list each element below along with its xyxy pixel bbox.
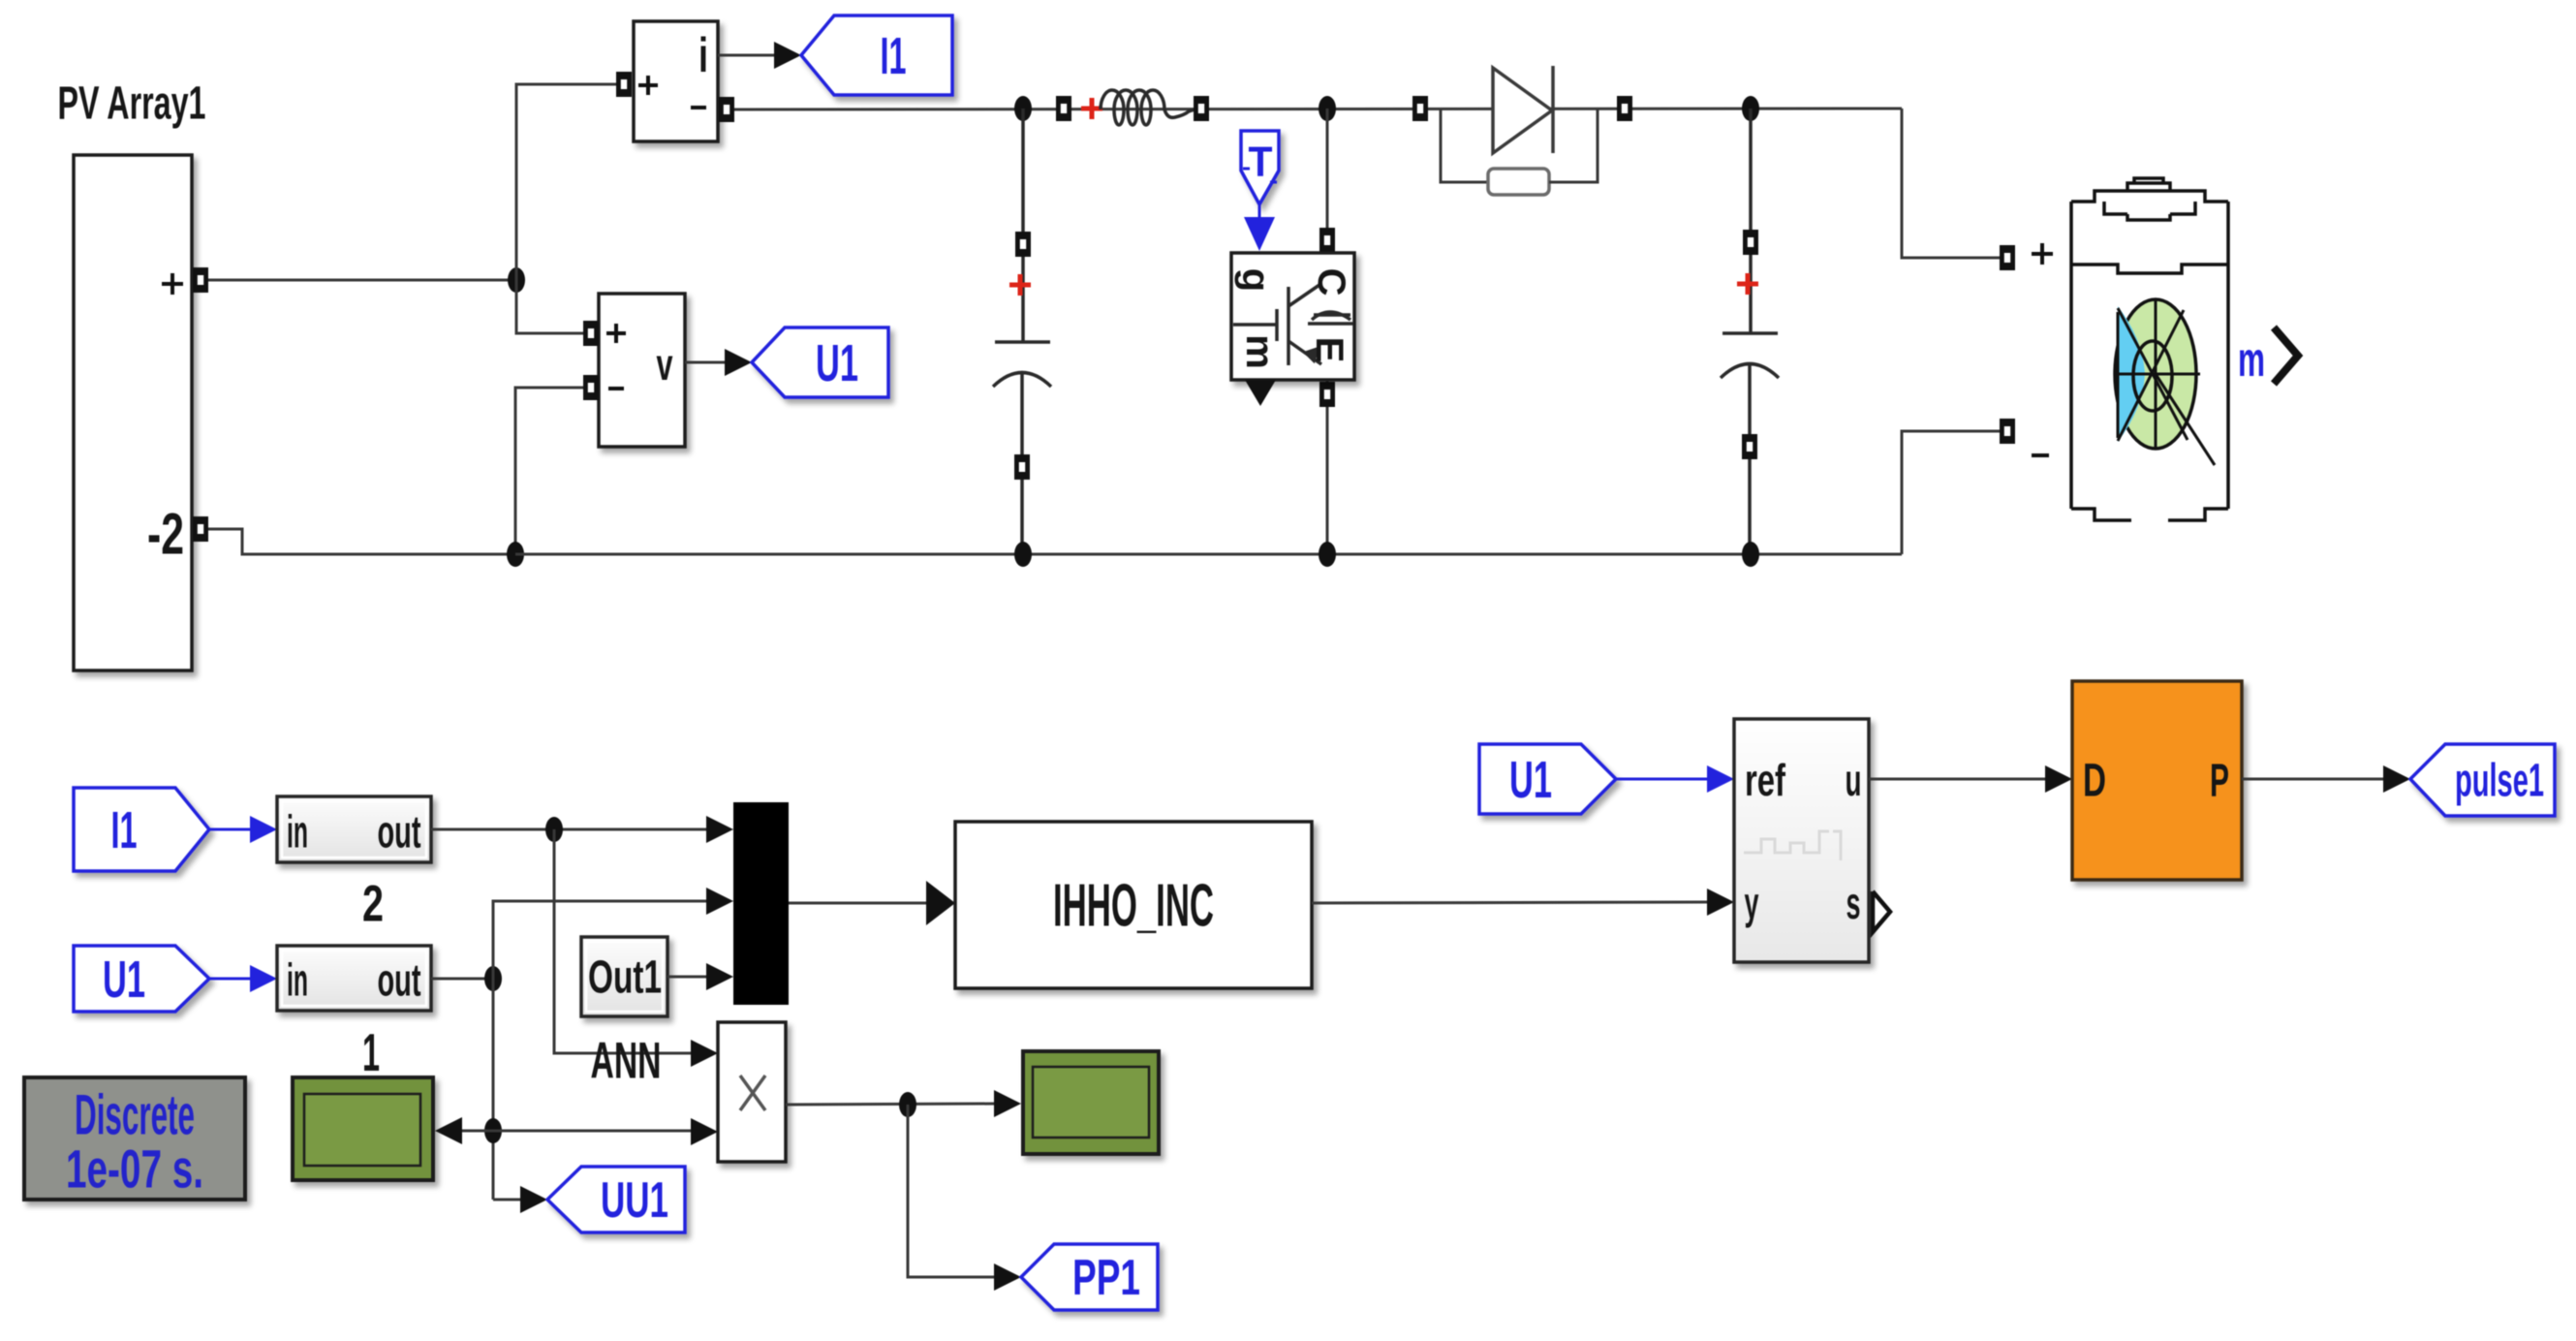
svg-text:Out1: Out1 (588, 952, 662, 1004)
inductor L left port marker (1056, 96, 1071, 121)
diode D right port marker (1617, 96, 1632, 121)
wire top rail to battery + (1902, 109, 2000, 258)
diode D (1493, 66, 1553, 153)
svg-text:U1: U1 (816, 334, 858, 392)
inductor polarity + (1081, 98, 1102, 119)
diode D left port marker (1412, 96, 1428, 121)
blue arrowhead into RT2 (250, 816, 277, 843)
svg-text:ANN: ANN (591, 1033, 662, 1090)
Discrete powergui block (24, 1077, 245, 1200)
svg-text:PP1: PP1 (1072, 1250, 1140, 1306)
svg-text:E: E (1308, 337, 1350, 363)
inductor L coil (1101, 90, 1195, 125)
current measurement block (634, 21, 718, 141)
capacitor C2 (1721, 109, 1779, 554)
wire u out to PWM (1869, 778, 2047, 781)
s output chevron (1873, 891, 1890, 932)
svg-text:v: v (657, 339, 673, 390)
battery + port marker (2000, 245, 2015, 270)
goto tag UU1 (547, 1167, 685, 1232)
node A junction (508, 267, 525, 293)
wire U1 to ref (1616, 778, 1709, 781)
svg-text:U1: U1 (1509, 751, 1552, 809)
diode snubber wire right (1549, 109, 1598, 182)
PV + port marker (193, 267, 208, 293)
IGBT top port marker (1319, 228, 1335, 253)
wire i output (718, 54, 776, 57)
arrowhead into PP1 (994, 1263, 1021, 1291)
svg-text:pulse1: pulse1 (2455, 756, 2544, 807)
IHHO_INC block (955, 822, 1312, 988)
wire U1 node down (492, 979, 495, 1200)
node C1 bottom junction (1014, 542, 1032, 567)
arrowhead mux input 2 (706, 888, 733, 915)
arrowhead into UU1 (520, 1186, 547, 1213)
top rail wire (734, 109, 1902, 109)
battery block (2071, 178, 2228, 520)
svg-text:1e-07 s.: 1e-07 s. (66, 1138, 203, 1200)
goto tag PP1 (1021, 1244, 1158, 1310)
svg-text:UU1: UU1 (601, 1172, 668, 1229)
goto tag I1 (801, 16, 952, 95)
arrowhead into I1 goto (774, 42, 801, 69)
node B junction (507, 542, 524, 567)
node U1 lower junction (484, 1118, 502, 1143)
svg-text:D: D (2083, 756, 2106, 807)
arrowhead into display 1 (435, 1117, 462, 1144)
wire P out to pulse1 (2242, 778, 2385, 781)
product block X (718, 1022, 786, 1162)
display block 2 (1023, 1051, 1159, 1154)
node I1 junction (545, 817, 563, 842)
svg-text:IHHO_INC: IHHO_INC (1053, 873, 1214, 940)
arrowhead into pulse1 (2383, 765, 2410, 793)
IGBT branch wire top (1326, 109, 1329, 253)
wire node A to current meter + (516, 84, 616, 280)
node IGBT top junction (1319, 96, 1336, 121)
current meter - port marker (719, 97, 734, 122)
wire RT1 out (431, 978, 493, 981)
current meter + port marker (616, 72, 632, 97)
wire mux out to IHHO_INC (789, 902, 928, 905)
arrowhead mux input 3 (706, 963, 733, 990)
wire product out (786, 1104, 997, 1105)
IGBT unconnected m arrow (1245, 380, 1276, 406)
arrowhead product input 2 (691, 1118, 718, 1145)
svg-text:-2: -2 (147, 502, 184, 567)
battery + label (2032, 243, 2053, 265)
battery - port marker (2000, 419, 2015, 444)
svg-text:out: out (378, 806, 421, 858)
svg-text:s: s (1847, 878, 1861, 928)
inductor L right port marker (1194, 96, 1209, 121)
svg-text:u: u (1846, 755, 1862, 805)
diode snubber wire left (1441, 109, 1488, 182)
svg-text:C: C (1310, 268, 1352, 296)
battery m chevron (2274, 327, 2298, 384)
snubber resistor (1488, 169, 1549, 195)
Out1 block (581, 937, 667, 1016)
C1 top port marker (1015, 232, 1031, 257)
wire Out1 to mux input 3 (667, 976, 708, 979)
svg-text:m: m (2238, 332, 2265, 387)
svg-text:I1: I1 (111, 801, 138, 859)
svg-text:ref: ref (1745, 755, 1785, 805)
svg-text:out: out (378, 954, 421, 1006)
wire node P to PP1 (908, 1105, 997, 1277)
From tag I1 (74, 788, 209, 871)
C1 bottom port marker (1014, 454, 1030, 480)
From tag U1 (74, 946, 209, 1012)
wire V- to bottom rail (515, 388, 583, 554)
arrowhead mux input 1 (706, 816, 733, 843)
svg-text:2: 2 (362, 876, 384, 933)
wire U1 node to mux input 2 (493, 901, 708, 979)
svg-text:P: P (2210, 756, 2229, 807)
node C1 top junction (1014, 96, 1032, 121)
svg-text:i: i (698, 28, 708, 82)
wire IHHO out to controller y input (1312, 902, 1709, 903)
PI controller block ref/u y/s (1734, 719, 1869, 962)
battery - label (2032, 453, 2049, 457)
arrowhead PWM input (2045, 765, 2072, 793)
From tag U1 right (1479, 744, 1616, 814)
node C2 bottom junction (1742, 542, 1759, 567)
rate transition block 2 (277, 796, 431, 862)
battery wheel icon (2115, 299, 2215, 465)
arrowhead IHHO input (926, 881, 955, 925)
arrowhead into U1 goto (725, 349, 752, 376)
wire PV+ to node A (208, 279, 516, 282)
wire node A to voltage meter + (516, 280, 583, 333)
arrowhead into display 2 (994, 1090, 1021, 1117)
svg-text:U1: U1 (103, 951, 145, 1009)
wire U1 from tag (209, 978, 252, 981)
wire T to gate (1258, 204, 1261, 218)
svg-text:y: y (1745, 878, 1759, 928)
svg-text:g: g (1234, 268, 1277, 292)
wire RT2 out to mux (431, 828, 708, 831)
wire v output (685, 361, 725, 364)
C1 polarity + (1009, 274, 1031, 296)
IGBT branch wire bottom (1326, 380, 1329, 554)
goto tag pulse1 (2410, 744, 2555, 816)
svg-text:1: 1 (362, 1022, 380, 1082)
node P junction (899, 1092, 916, 1117)
wire I1 node down to multiplier (554, 829, 694, 1053)
PV array block (74, 155, 192, 670)
C2 polarity + (1737, 273, 1758, 295)
capacitor C1 (993, 109, 1051, 554)
voltage measurement block (599, 294, 685, 447)
arrowhead y input (1707, 889, 1734, 916)
C2 bottom port marker (1742, 434, 1757, 459)
IGBT bottom port marker (1319, 382, 1335, 407)
IGBT block (1231, 253, 1354, 380)
wire node to display1 and product (462, 1130, 694, 1133)
node C2 top junction (1742, 96, 1759, 121)
V - port marker (583, 375, 599, 400)
goto tag U1 (752, 327, 888, 397)
wire bottom rail to battery - (1902, 431, 2000, 554)
blue arrowhead into RT1 (250, 965, 277, 992)
node U1 junction (484, 966, 502, 991)
arrowhead product input 1 (691, 1040, 718, 1067)
blue arrowhead into gate (1244, 217, 1275, 251)
wire U1 node to UU1 (493, 1199, 522, 1201)
C2 top port marker (1743, 230, 1758, 255)
mux block (733, 802, 789, 1005)
svg-text:in: in (287, 806, 308, 858)
rate transition block 1 (277, 946, 431, 1011)
svg-text:T: T (1249, 139, 1273, 186)
PV - port marker (193, 516, 208, 542)
PWM generator block (2072, 681, 2242, 880)
svg-text:m: m (1238, 334, 1281, 369)
svg-text:PV Array1: PV Array1 (58, 78, 206, 130)
svg-text:I1: I1 (881, 27, 907, 85)
display block 1 (293, 1077, 433, 1180)
blue arrowhead ref input (1707, 765, 1734, 793)
node IGBT bottom junction (1319, 542, 1336, 567)
wire I1 from tag (209, 828, 252, 831)
V + port marker (583, 321, 599, 346)
From tag T (1241, 131, 1279, 204)
PV + port label (162, 273, 183, 295)
wire PV- to bottom rail (208, 529, 515, 554)
bottom rail wire (515, 553, 1902, 556)
svg-text:in: in (287, 954, 308, 1006)
